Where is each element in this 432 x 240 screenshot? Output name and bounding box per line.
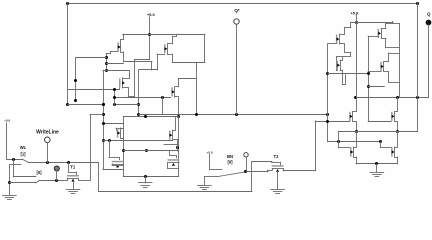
wire xyxy=(167,162,169,168)
wire xyxy=(328,141,381,143)
wire xyxy=(368,86,384,88)
wire xyxy=(68,104,103,106)
wire BN terminal lead xyxy=(246,157,248,172)
wire xyxy=(381,147,392,149)
ground T1 substrate xyxy=(66,189,80,191)
wire xyxy=(338,132,340,142)
junction xyxy=(416,96,419,99)
wire xyxy=(68,163,70,172)
wire latch frame right edge xyxy=(178,117,180,177)
wire bit net to T1 xyxy=(39,180,62,182)
wire WriteLine to T2 gate xyxy=(252,161,272,163)
wire xyxy=(128,88,130,97)
wire xyxy=(350,23,352,28)
junction xyxy=(74,99,77,102)
transistor R7 (output driver left) xyxy=(353,147,355,157)
wire xyxy=(168,168,179,170)
junction xyxy=(235,113,238,116)
wire xyxy=(123,52,125,62)
svg-text:+5.0: +5.0 xyxy=(4,119,10,123)
wire xyxy=(175,96,178,98)
wire xyxy=(103,70,105,169)
junction xyxy=(354,96,357,99)
wire xyxy=(399,24,401,98)
wire xyxy=(385,24,387,29)
transistor M1 (latch load left) xyxy=(120,42,122,52)
wire xyxy=(280,162,282,166)
junction xyxy=(161,96,164,99)
wire xyxy=(356,15,358,23)
junction T1 gate tap xyxy=(67,161,70,164)
transistor M8 (cell lower-right) xyxy=(168,162,179,164)
wire WriteLine terminal lead xyxy=(47,143,49,163)
wire xyxy=(173,130,176,132)
wire xyxy=(120,138,123,140)
wire xyxy=(356,121,358,131)
wire top net from latch to Q column xyxy=(68,3,417,5)
wire xyxy=(386,47,399,49)
wire xyxy=(342,56,344,60)
transistor R3 (buffer driver 1) xyxy=(340,60,342,70)
wire xyxy=(164,144,178,146)
terminal Q* (open circle) xyxy=(234,19,239,24)
wire xyxy=(172,36,174,44)
wire xyxy=(204,34,206,62)
transistor R5 (output stage left) xyxy=(352,111,354,121)
junction +5.0 rail xyxy=(148,33,151,36)
wire xyxy=(120,40,122,43)
wire xyxy=(103,70,130,72)
wire xyxy=(395,147,398,149)
wire xyxy=(119,157,121,159)
wire xyxy=(268,170,272,172)
junction +5 branch xyxy=(12,158,15,161)
junction xyxy=(396,130,399,133)
wire xyxy=(277,171,279,189)
wire xyxy=(354,157,357,159)
wire xyxy=(389,82,400,84)
wire xyxy=(9,164,21,166)
junction xyxy=(102,103,105,106)
wire xyxy=(115,104,139,106)
wire xyxy=(395,157,398,159)
wire xyxy=(344,27,350,29)
svg-text:Q: Q xyxy=(427,11,431,16)
wire xyxy=(168,54,173,56)
wire xyxy=(356,23,358,112)
wire xyxy=(162,97,164,115)
wire xyxy=(344,27,346,34)
transistor M6 (cell right) xyxy=(172,130,174,140)
junction xyxy=(195,113,198,116)
svg-text:[0]: [0] xyxy=(227,159,233,164)
wire WriteLine drop xyxy=(98,163,100,192)
wire xyxy=(336,70,337,72)
svg-text:BN: BN xyxy=(227,154,233,159)
wire +5.0 drop to BN switch xyxy=(209,155,211,170)
terminal BN (open circle) xyxy=(244,153,248,157)
junction xyxy=(113,88,116,91)
junction xyxy=(177,115,180,118)
junction xyxy=(144,115,147,118)
wire xyxy=(9,182,35,184)
wire xyxy=(272,168,274,170)
wire xyxy=(119,85,121,90)
junction xyxy=(102,139,105,142)
junction xyxy=(137,113,140,116)
wire xyxy=(13,176,35,178)
junction xyxy=(105,62,108,65)
wire xyxy=(345,75,347,85)
wire xyxy=(157,54,159,70)
wire xyxy=(110,51,118,53)
wire xyxy=(384,71,389,73)
wire xyxy=(90,114,103,116)
wire right block left bus xyxy=(327,44,329,141)
wire xyxy=(342,84,345,86)
wire xyxy=(388,72,390,83)
junction +5.0 rail B xyxy=(355,21,358,24)
transistor M2 (latch load right) xyxy=(167,44,169,54)
wire xyxy=(169,151,171,156)
wire xyxy=(315,121,317,171)
wire xyxy=(178,97,180,117)
junction xyxy=(145,149,148,152)
wire xyxy=(138,70,140,115)
wire xyxy=(68,172,76,174)
transistor M3 (latch driver left) xyxy=(122,78,124,88)
wire xyxy=(115,97,171,99)
transistor M4 (latch driver right) xyxy=(174,87,176,97)
junction LED probe tap xyxy=(55,179,58,182)
wire xyxy=(151,62,153,70)
wire xyxy=(112,164,114,166)
junction xyxy=(326,120,329,123)
wire Q* vertical to latch node xyxy=(236,24,238,115)
wire xyxy=(106,54,108,71)
wire xyxy=(110,52,112,54)
wire xyxy=(173,139,178,141)
transistor M5 (cell left) xyxy=(120,128,122,138)
wire xyxy=(116,128,122,130)
wire xyxy=(397,121,399,131)
junction xyxy=(108,139,111,142)
junction xyxy=(105,69,108,72)
wire WL switch contact +5 xyxy=(7,159,22,161)
svg-text:T2: T2 xyxy=(274,154,280,159)
wire xyxy=(134,60,136,97)
junction xyxy=(396,96,399,99)
switch BN lever (set to 0) xyxy=(219,172,246,177)
wire xyxy=(389,53,400,55)
wire xyxy=(283,170,315,172)
junction xyxy=(66,103,69,106)
switch WL lever (set to 1) xyxy=(22,159,28,162)
wire xyxy=(172,62,205,64)
wire xyxy=(210,169,223,171)
wire output stage ladder net xyxy=(338,131,417,133)
wire +5.0 supply drop xyxy=(149,17,151,60)
junction xyxy=(74,79,77,82)
wire xyxy=(79,180,91,182)
wire xyxy=(267,170,269,172)
wire xyxy=(356,163,397,165)
wire xyxy=(271,161,273,163)
wire xyxy=(76,172,78,175)
ground T2 substrate xyxy=(271,189,285,191)
wire xyxy=(340,60,342,62)
transistor R2 (buffer load 2) xyxy=(381,28,383,38)
junction xyxy=(105,56,108,59)
wire xyxy=(368,36,378,38)
wire xyxy=(123,78,130,80)
wire xyxy=(172,54,174,62)
wire xyxy=(397,98,399,112)
wire xyxy=(13,159,15,177)
wire xyxy=(338,147,350,149)
wire xyxy=(397,157,399,164)
junction top-right xyxy=(416,2,419,5)
wire WriteLine riser at T2 xyxy=(251,162,253,191)
wire xyxy=(315,121,350,123)
wire xyxy=(340,34,345,36)
svg-text:T1: T1 xyxy=(70,165,76,170)
wire xyxy=(336,56,338,70)
switch bit lever (set to 0) xyxy=(36,181,39,183)
terminal WriteLine (open circle) xyxy=(45,137,51,143)
wire xyxy=(134,59,149,61)
junction xyxy=(144,175,147,178)
wire xyxy=(112,165,123,167)
svg-text:+5.0: +5.0 xyxy=(207,151,213,155)
wire xyxy=(353,121,356,123)
wire xyxy=(385,38,387,47)
wire xyxy=(354,147,357,149)
wire xyxy=(204,176,218,178)
wire xyxy=(121,39,124,41)
wire xyxy=(121,52,124,54)
wire xyxy=(170,155,176,157)
transistor T2 (access right) xyxy=(272,168,283,170)
wire xyxy=(368,121,391,123)
wire +5.0 rail A xyxy=(123,34,205,36)
wire xyxy=(103,169,123,171)
junction xyxy=(176,146,179,149)
junction xyxy=(113,103,116,106)
wire xyxy=(157,54,165,56)
wire xyxy=(350,52,352,56)
wire xyxy=(103,123,123,125)
wire xyxy=(175,86,178,88)
wire xyxy=(328,73,369,75)
junction xyxy=(375,162,378,165)
wire xyxy=(109,157,119,159)
wire xyxy=(78,178,80,180)
wire left vertical net xyxy=(67,3,69,104)
wire xyxy=(129,70,131,78)
ground BN switch xyxy=(198,185,212,187)
wire xyxy=(328,43,337,45)
ground output drivers xyxy=(370,172,384,174)
wire xyxy=(340,70,342,72)
wire xyxy=(175,117,177,130)
wire xyxy=(123,87,129,89)
wire node Q* long net to right block xyxy=(139,114,328,116)
wire xyxy=(196,62,198,114)
wire xyxy=(178,78,196,80)
wire xyxy=(76,57,106,59)
svg-text:+5.0: +5.0 xyxy=(350,11,358,16)
wire xyxy=(395,111,398,113)
wire xyxy=(123,61,151,63)
junction xyxy=(326,113,329,116)
junction xyxy=(102,103,105,106)
wire Q vertical xyxy=(428,25,430,98)
junction xyxy=(367,72,370,75)
transistor R1 (buffer load 1) xyxy=(339,34,341,44)
wire Q output rail xyxy=(356,97,429,99)
wire xyxy=(368,36,370,121)
wire xyxy=(395,121,398,123)
wire xyxy=(68,89,120,91)
wire xyxy=(397,132,399,147)
wire latch frame left edge xyxy=(123,117,125,177)
wire xyxy=(145,176,147,182)
junction xyxy=(122,149,125,152)
wire feedback vertical from top net xyxy=(417,3,419,132)
svg-text:[0]: [0] xyxy=(36,170,42,175)
wire latch frame top edge xyxy=(123,116,178,118)
junction xyxy=(8,181,11,184)
wire xyxy=(246,171,268,173)
wire xyxy=(386,23,399,25)
wire xyxy=(103,140,173,142)
svg-text:+5.0: +5.0 xyxy=(147,12,156,17)
wire xyxy=(392,22,394,24)
wire xyxy=(384,61,389,63)
wire xyxy=(139,69,157,71)
junction xyxy=(102,122,105,125)
wire xyxy=(338,142,340,148)
junction WriteLine probe tap xyxy=(46,161,49,164)
wire xyxy=(177,140,179,151)
wire xyxy=(109,140,111,157)
wire xyxy=(116,128,118,130)
wire xyxy=(73,181,75,189)
svg-text:[1]: [1] xyxy=(20,151,26,156)
wire xyxy=(356,132,358,147)
wire xyxy=(123,150,178,152)
LED probe (gray, off) xyxy=(54,166,59,171)
wire xyxy=(176,34,178,36)
wire xyxy=(388,53,390,62)
transistor T1 (access left) xyxy=(68,178,79,180)
wire xyxy=(356,157,358,164)
junction top-left xyxy=(66,2,69,5)
wire xyxy=(344,44,346,52)
wire xyxy=(283,168,285,170)
transistor R6 (output stage right) xyxy=(394,111,396,121)
wire xyxy=(62,180,67,182)
junction xyxy=(113,96,116,99)
wire xyxy=(106,63,123,65)
terminal Q (filled circle) xyxy=(426,20,431,25)
wire xyxy=(128,96,134,98)
wire xyxy=(272,162,280,164)
transistor R4 (buffer driver 2) xyxy=(383,62,385,72)
svg-text:WriteLine: WriteLine xyxy=(36,129,59,135)
wire xyxy=(340,43,345,45)
wire xyxy=(67,178,69,180)
wire xyxy=(123,34,125,39)
wire xyxy=(344,52,350,54)
transistor M7 (cell lower-left) xyxy=(112,164,123,166)
transistor R8 (output driver right) xyxy=(394,147,396,157)
junction BN pivot xyxy=(244,170,247,173)
wire xyxy=(168,43,173,45)
wire ground rail left xyxy=(9,165,11,195)
ground WL switch xyxy=(3,195,17,197)
wire WriteLine bottom run to T2 xyxy=(98,191,252,193)
wire latch frame bottom edge xyxy=(123,176,178,178)
wire xyxy=(380,142,382,148)
junction xyxy=(102,113,105,116)
wire WriteLine net xyxy=(29,162,99,164)
wire xyxy=(376,164,378,172)
wire +5.0 rail B xyxy=(351,22,393,24)
wire T1 riser to latch xyxy=(90,114,92,180)
junction xyxy=(337,140,340,143)
svg-text:WL: WL xyxy=(20,145,27,150)
junction xyxy=(137,103,140,106)
wire xyxy=(368,71,381,73)
wire xyxy=(56,171,58,181)
wire xyxy=(114,90,116,105)
junction xyxy=(355,130,358,133)
wire +5.0 drop to WL switch xyxy=(6,123,8,159)
junction xyxy=(379,140,382,143)
wire xyxy=(336,56,350,58)
wire xyxy=(342,70,344,84)
wire xyxy=(381,28,386,30)
wire xyxy=(381,38,386,40)
wire xyxy=(178,79,180,87)
wire xyxy=(172,36,176,38)
wire xyxy=(106,53,110,55)
svg-text:Q*: Q* xyxy=(234,8,240,13)
wire xyxy=(75,58,77,101)
wire xyxy=(178,162,180,164)
wire xyxy=(176,155,178,157)
wire xyxy=(120,128,123,130)
junction xyxy=(326,72,329,75)
junction xyxy=(367,85,370,88)
ground latch frame xyxy=(138,182,152,184)
wire xyxy=(204,176,206,185)
wire xyxy=(353,111,356,113)
